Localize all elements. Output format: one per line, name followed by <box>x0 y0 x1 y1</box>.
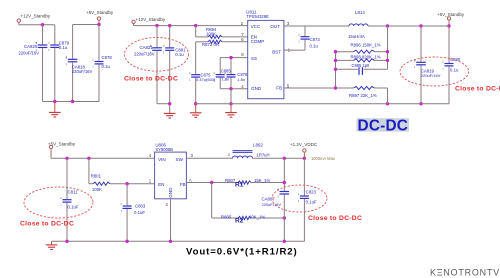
svg-text:1.8n: 1.8n <box>222 76 230 81</box>
svg-text:1.8n: 1.8n <box>237 77 245 82</box>
svg-text:+12V_Standby: +12V_Standby <box>21 14 51 19</box>
svg-text:2: 2 <box>120 202 122 206</box>
svg-text:Close to DC-DC: Close to DC-DC <box>20 221 74 228</box>
svg-text:2: 2 <box>214 71 216 75</box>
svg-text:KΞNOTRONTV: KΞNOTRONTV <box>430 267 500 277</box>
svg-text:1: 1 <box>120 209 122 213</box>
svg-text:6: 6 <box>241 37 244 42</box>
svg-text:GND: GND <box>251 86 262 91</box>
svg-text:15K_1%: 15K_1% <box>254 178 270 183</box>
svg-text:R897 22K_1%: R897 22K_1% <box>349 93 377 98</box>
svg-text:R801: R801 <box>91 174 102 179</box>
svg-text:OUT: OUT <box>270 24 280 29</box>
svg-text:Close to DC-DC: Close to DC-DC <box>124 76 178 83</box>
svg-text:R898 820K_1%: R898 820K_1% <box>351 55 381 60</box>
svg-text:3: 3 <box>287 21 290 26</box>
svg-text:2: 2 <box>298 33 300 37</box>
svg-text:0.1u: 0.1u <box>175 52 184 57</box>
svg-text:L802: L802 <box>253 143 263 148</box>
svg-text:R896 150K_1%: R896 150K_1% <box>351 43 381 48</box>
svg-text:2: 2 <box>60 196 62 200</box>
svg-text:+12V_Standby: +12V_Standby <box>136 17 166 22</box>
svg-text:10K_1%: 10K_1% <box>249 215 265 220</box>
svg-text:15uH/4A: 15uH/4A <box>348 34 365 39</box>
svg-text:3: 3 <box>191 153 194 158</box>
svg-text:C885: C885 <box>221 69 232 74</box>
svg-text:R2: R2 <box>235 217 244 224</box>
svg-text:1R7uH: 1R7uH <box>257 152 270 157</box>
svg-text:1: 1 <box>442 66 444 70</box>
svg-text:+1.2V_VDDC: +1.2V_VDDC <box>290 142 318 147</box>
svg-text:R1: R1 <box>235 182 244 189</box>
svg-text:FB: FB <box>276 85 282 90</box>
svg-text:2: 2 <box>48 41 50 45</box>
svg-text:1: 1 <box>298 199 300 203</box>
svg-text:C878: C878 <box>102 55 113 60</box>
svg-text:SW: SW <box>176 157 184 162</box>
svg-text:CA821: CA821 <box>140 45 154 50</box>
svg-text:1: 1 <box>298 40 300 44</box>
svg-text:0.1u: 0.1u <box>450 68 459 73</box>
svg-text:1: 1 <box>92 64 94 68</box>
svg-text:220uF/16V: 220uF/16V <box>262 202 282 207</box>
svg-text:100K: 100K <box>92 187 102 192</box>
svg-text:1: 1 <box>149 179 152 184</box>
svg-text:0.1uF: 0.1uF <box>306 199 317 204</box>
svg-text:Close to DC-DC: Close to DC-DC <box>455 85 500 92</box>
svg-text:2: 2 <box>166 202 169 207</box>
svg-text:+5V_Standby: +5V_Standby <box>86 10 114 15</box>
svg-text:Close to DC-DC: Close to DC-DC <box>308 215 362 222</box>
svg-text:C823: C823 <box>306 190 317 195</box>
svg-text:CA820: CA820 <box>24 44 38 49</box>
svg-text:CA807: CA807 <box>262 197 276 202</box>
svg-text:+: + <box>65 56 67 60</box>
svg-text:2: 2 <box>442 60 444 64</box>
svg-text:2: 2 <box>189 71 191 75</box>
svg-text:2: 2 <box>298 192 300 196</box>
svg-text:1: 1 <box>277 194 279 198</box>
svg-text:C885 1p0: C885 1p0 <box>352 63 370 68</box>
svg-text:220uF/16V: 220uF/16V <box>19 51 40 56</box>
svg-text:BST: BST <box>272 50 281 55</box>
svg-text:100K: 100K <box>206 32 216 37</box>
svg-text:0.1uF: 0.1uF <box>134 210 145 215</box>
svg-text:0.1u: 0.1u <box>310 44 319 49</box>
svg-text:C803: C803 <box>135 203 146 208</box>
svg-text:2: 2 <box>92 58 94 62</box>
svg-text:2: 2 <box>228 153 230 157</box>
svg-text:L814: L814 <box>355 10 365 15</box>
svg-text:SS: SS <box>251 56 257 61</box>
svg-text:1: 1 <box>189 78 191 82</box>
svg-text:FB: FB <box>180 182 186 187</box>
svg-text:+5V_Standby: +5V_Standby <box>437 12 465 17</box>
svg-text:0.1u: 0.1u <box>59 45 68 50</box>
svg-text:0.1u: 0.1u <box>102 64 111 69</box>
svg-text:0.1uF: 0.1uF <box>68 204 79 209</box>
svg-text:220uF/16V: 220uF/16V <box>421 73 441 78</box>
svg-text:EN: EN <box>158 182 164 187</box>
svg-text:4: 4 <box>149 153 152 158</box>
svg-text:TPS54329E: TPS54329E <box>246 14 269 19</box>
svg-text:R805: R805 <box>221 215 232 220</box>
svg-text:1: 1 <box>60 203 62 207</box>
svg-text:Vout=0.6V*(1+R1/R2): Vout=0.6V*(1+R1/R2) <box>186 246 298 257</box>
svg-text:VIN: VIN <box>158 157 166 162</box>
svg-text:1: 1 <box>414 65 416 69</box>
svg-text:220uF/16V: 220uF/16V <box>72 69 93 74</box>
svg-text:220uF/16V: 220uF/16V <box>134 52 155 57</box>
svg-text:1: 1 <box>163 51 165 55</box>
svg-text:DC-DC: DC-DC <box>358 118 409 135</box>
svg-text:1: 1 <box>66 62 68 66</box>
svg-text:C873: C873 <box>310 37 321 42</box>
svg-text:2: 2 <box>163 44 165 48</box>
svg-text:COMP: COMP <box>251 39 265 44</box>
svg-text:GND: GND <box>168 187 173 198</box>
svg-text:8: 8 <box>241 52 244 57</box>
svg-text:C811: C811 <box>68 189 79 194</box>
svg-text:1000mA Max: 1000mA Max <box>311 156 335 161</box>
svg-text:VCC: VCC <box>251 24 261 29</box>
svg-text:SY8008B: SY8008B <box>155 147 173 152</box>
svg-text:1: 1 <box>48 48 50 52</box>
svg-text:R872 0R: R872 0R <box>202 42 219 47</box>
